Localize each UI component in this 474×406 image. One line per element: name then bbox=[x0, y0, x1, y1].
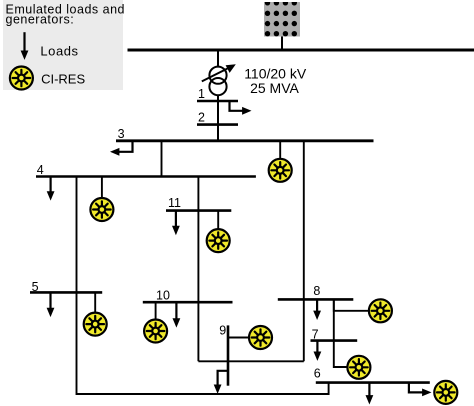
svg-text:11: 11 bbox=[168, 196, 181, 210]
load at bus 7 (down arrow) bbox=[314, 341, 322, 361]
svg-text:25 MVA: 25 MVA bbox=[250, 80, 299, 96]
wire: bus 10 to CI-RES bbox=[155, 302, 157, 319]
svg-text:CI-RES: CI-RES bbox=[41, 71, 85, 86]
wire: bus 4 to CI-RES bbox=[101, 177, 103, 198]
load at bus 10 (down arrow) bbox=[173, 302, 181, 327]
CI-RES at bus 11 bbox=[207, 229, 230, 252]
bus 7 bbox=[311, 339, 358, 342]
external grid bbox=[264, 0, 300, 36]
CI-RES at bus 10 bbox=[144, 320, 167, 343]
CI-RES at bus 7 bbox=[347, 356, 370, 379]
legend load arrow bbox=[21, 32, 29, 60]
wire: bus 3 to bus 4 bbox=[161, 141, 163, 177]
load at bus 8 (down arrow) bbox=[313, 299, 321, 320]
bus 2 bbox=[197, 123, 238, 126]
wire: lower ring horizontal to bus 8 feeder bbox=[198, 360, 303, 362]
load at bus 6 (down arrow) bbox=[366, 383, 374, 405]
load at bus 3 (step left arrow) bbox=[110, 141, 133, 156]
svg-text:10: 10 bbox=[156, 289, 170, 303]
legend title "Emulated loads and generators:" bbox=[6, 2, 126, 26]
110 kV bus bbox=[128, 49, 474, 52]
wire: external grid to 110 kV bus bbox=[281, 37, 283, 51]
CI-RES at bus 8 bbox=[369, 299, 392, 322]
svg-text:8: 8 bbox=[313, 284, 320, 298]
wire: 110 kV bus to transformer bbox=[217, 50, 219, 67]
load at bus 6 (step right arrow to CI-RES) bbox=[409, 383, 432, 397]
svg-text:2: 2 bbox=[198, 110, 205, 124]
wire: bus 3 through bus 8 down to ring bbox=[303, 141, 305, 361]
legend CI-RES symbol bbox=[10, 67, 33, 90]
wire: bus 9 to CI-RES bbox=[228, 337, 250, 339]
CI-RES at bus 3 bbox=[269, 159, 292, 182]
wire: bus 5 to CI-RES bbox=[94, 292, 96, 312]
load at bus 4 (down arrow) bbox=[47, 177, 55, 201]
bus 5 bbox=[30, 291, 102, 294]
transformer T1 110/20 kV with tap arrow bbox=[202, 64, 236, 95]
load at bus 11 (down arrow) bbox=[172, 211, 180, 236]
wire: bus 8 to CI-RES (step) bbox=[334, 299, 369, 310]
load at bus 1 (step right arrow) bbox=[230, 101, 252, 115]
wire: transformer to bus 3 bbox=[217, 95, 219, 141]
bus 10 bbox=[143, 301, 233, 304]
load at bus 5 (down arrow) bbox=[47, 292, 55, 317]
svg-text:7: 7 bbox=[312, 327, 319, 341]
svg-text:generators:: generators: bbox=[6, 13, 75, 27]
bus 6 bbox=[316, 381, 430, 384]
wire: bus 11 to CI-RES bbox=[217, 211, 219, 229]
bus 3 bbox=[116, 139, 374, 142]
CI-RES at bus 4 bbox=[90, 198, 113, 221]
legend box bbox=[3, 0, 123, 90]
wire: bus 3 to CI-RES bbox=[279, 141, 281, 159]
bus 1 bbox=[197, 100, 238, 103]
bus 11 bbox=[166, 209, 231, 212]
CI-RES at bus 9 bbox=[249, 326, 272, 349]
svg-text:9: 9 bbox=[219, 324, 226, 338]
bus 9 (vertical bar) bbox=[227, 325, 230, 385]
svg-text:Loads: Loads bbox=[40, 44, 78, 59]
CI-RES at bus 6 bbox=[434, 381, 457, 404]
wire: bus 8 through bus 7 down to CI-RES (step) bbox=[334, 299, 348, 367]
wire: bus 4 to bus 5 and bottom ring to bus 6 bbox=[77, 177, 329, 395]
bus 4 bbox=[36, 175, 256, 178]
bus 8 bbox=[278, 298, 354, 301]
load at bus 9 (elbow down arrow) bbox=[214, 371, 228, 394]
svg-text:1: 1 bbox=[198, 87, 205, 101]
CI-RES at bus 5 bbox=[84, 313, 107, 336]
svg-text:6: 6 bbox=[314, 367, 321, 381]
svg-text:3: 3 bbox=[118, 127, 125, 141]
svg-text:4: 4 bbox=[37, 163, 44, 177]
wire: bus 4 through bus 11, bus 10 down to ring bbox=[197, 177, 199, 362]
